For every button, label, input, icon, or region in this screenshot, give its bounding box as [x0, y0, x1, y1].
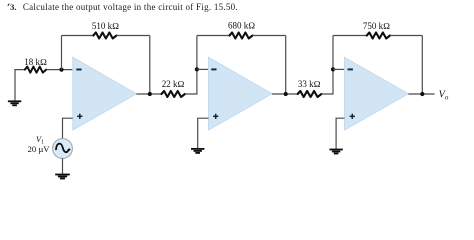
source V1	[53, 139, 73, 159]
wire: op1 noninverting input to source	[63, 118, 73, 138]
resistor R 22k	[162, 91, 185, 97]
svg-text:Calculate the output voltage i: Calculate the output voltage in the circ…	[23, 2, 238, 12]
wire: op2 feedback top right	[253, 35, 286, 37]
wire: op3 feedback top right	[390, 35, 422, 37]
resistor R 18k	[25, 67, 46, 73]
svg-text:22 kΩ: 22 kΩ	[162, 79, 185, 89]
svg-text:680 kΩ: 680 kΩ	[228, 21, 255, 31]
wire: op1 feedback top left	[62, 35, 94, 37]
resistor R 510k	[93, 33, 116, 39]
wire: op1 feedback top right	[117, 35, 150, 37]
wire: op1 feedback left vertical	[61, 36, 63, 70]
op-amp U3	[345, 57, 409, 130]
wire: 22k to op2 vertical riser	[185, 36, 197, 95]
svg-text:3.: 3.	[10, 2, 17, 12]
wire: op3 noninverting input to ground	[336, 118, 344, 148]
wire: 18k to op-amp 1 inverting input	[46, 69, 73, 71]
wire: op2 feedback top left	[197, 35, 230, 37]
wire: op3 inverting input stub	[333, 68, 345, 70]
svg-text:510 kΩ: 510 kΩ	[92, 21, 119, 31]
resistor R 680k	[230, 33, 253, 39]
svg-text:18 kΩ: 18 kΩ	[24, 57, 47, 67]
wire: op3 output	[408, 93, 434, 95]
wire: input left lead and ground drop	[15, 70, 25, 101]
title text	[8, 2, 238, 12]
svg-text:20 µV: 20 µV	[28, 144, 51, 154]
node F (op3 output junction)	[420, 92, 424, 96]
wire: op1 output	[136, 93, 161, 95]
wire: op3 feedback right vertical	[421, 36, 423, 95]
ground (op3)	[329, 149, 342, 155]
resistor R 750k	[367, 33, 390, 39]
resistor R 33k	[298, 91, 322, 97]
wire: op3 feedback top left	[333, 35, 367, 37]
node A (op1 inverting input junction)	[59, 68, 63, 72]
wire: op2 feedback right vertical	[285, 36, 287, 95]
node D (op2 output junction)	[284, 92, 288, 96]
wire: op2 inverting input stub	[197, 68, 209, 70]
op-amp U1	[73, 57, 137, 130]
ground (source V1)	[55, 174, 70, 180]
wire: source to ground	[62, 158, 64, 173]
wire: op2 output	[272, 93, 298, 95]
wire: op1 feedback right vertical	[149, 36, 151, 95]
svg-text:33 kΩ: 33 kΩ	[298, 79, 321, 89]
wire: 33k to op3 vertical riser	[321, 36, 333, 95]
ground (input)	[8, 100, 21, 106]
node E (op3 inverting input junction)	[331, 67, 335, 71]
ground (op2)	[191, 148, 204, 154]
wire: op2 noninverting input to ground	[198, 118, 209, 148]
node B (op1 output junction)	[148, 92, 152, 96]
op-amp U2	[209, 57, 273, 130]
node C (op2 inverting input junction)	[195, 67, 199, 71]
svg-text:750 kΩ: 750 kΩ	[363, 21, 390, 31]
